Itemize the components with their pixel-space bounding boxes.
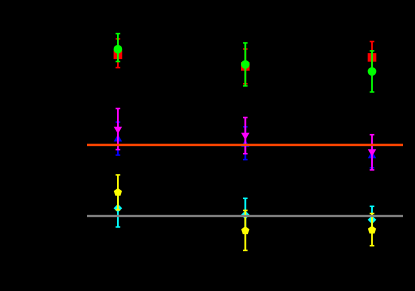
blue triangle-up errorbar col3: bottom cap: [370, 167, 375, 169]
blue triangle-up marker col1: [114, 134, 122, 141]
red squares errorbar col1: top cap: [116, 38, 121, 40]
yellow pentagons errorbar col1: top cap: [116, 174, 121, 176]
cyan diamonds errorbar col1: bottom cap: [116, 226, 121, 228]
yellow pentagons errorbar col3: bottom cap: [370, 245, 375, 247]
magenta triangle-down errorbar col1: bottom cap: [116, 149, 121, 151]
blue triangle-up marker col2: [241, 140, 249, 147]
blue triangle-up errorbar series: [114, 122, 377, 168]
cyan diamonds marker col1: [114, 204, 123, 213]
red squares errorbar col1: vertical bar: [117, 39, 119, 68]
magenta triangle-down errorbar col2: top cap: [243, 117, 248, 119]
green circles errorbar series: [114, 34, 377, 92]
cyan diamonds errorbar col2: vertical bar: [244, 198, 246, 231]
yellow pentagons errorbar col3: vertical bar: [371, 214, 373, 246]
blue triangle-up errorbar col1: vertical bar: [117, 122, 119, 155]
magenta triangle-down errorbar col3: top cap: [370, 134, 375, 136]
yellow pentagons errorbar series: [114, 175, 376, 251]
cyan diamonds errorbar col2: bottom cap: [243, 231, 248, 233]
blue triangle-up errorbar col1: bottom cap: [116, 154, 121, 156]
blue triangle-up errorbar col3: vertical bar: [371, 145, 373, 168]
magenta triangle-down errorbar col1: vertical bar: [117, 109, 119, 150]
green circles errorbar col1: vertical bar: [117, 34, 119, 62]
green circles marker col2: [241, 60, 250, 69]
cyan diamonds errorbar col3: bottom cap: [370, 232, 375, 234]
green circles errorbar col2: bottom cap: [243, 85, 248, 87]
red squares errorbar col3: top cap: [370, 41, 375, 43]
yellow pentagons errorbar col1: vertical bar: [117, 175, 119, 210]
orangered horizontal reference line: [87, 144, 403, 146]
magenta triangle-down errorbar col2: bottom cap: [243, 153, 248, 155]
magenta triangle-down marker col1: [114, 127, 122, 134]
red squares errorbar col2: top cap: [243, 48, 248, 50]
magenta triangle-down marker col3: [368, 149, 376, 156]
red squares errorbar series: [114, 39, 377, 84]
magenta triangle-down errorbar col1: top cap: [116, 108, 121, 110]
yellow pentagons marker col2: [241, 226, 249, 234]
green circles marker col1: [114, 45, 123, 54]
cyan diamonds errorbar col1: vertical bar: [117, 191, 119, 227]
magenta triangle-down errorbar series: [114, 109, 377, 170]
yellow pentagons marker col1: [114, 188, 122, 196]
yellow pentagons errorbar col2: vertical bar: [244, 210, 246, 250]
red squares errorbar col1: bottom cap: [116, 67, 121, 69]
magenta triangle-down errorbar col2: vertical bar: [244, 118, 246, 154]
green circles errorbar col1: bottom cap: [116, 61, 121, 63]
cyan diamonds errorbar series: [114, 191, 377, 233]
red squares marker col1: [114, 51, 123, 60]
cyan diamonds marker col3: [368, 216, 377, 225]
green circles errorbar col1: top cap: [116, 33, 121, 35]
blue triangle-up errorbar col2: top cap: [243, 126, 248, 128]
yellow pentagons errorbar col2: top cap: [243, 209, 248, 211]
red squares errorbar col3: bottom cap: [370, 72, 375, 74]
red squares errorbar col2: vertical bar: [244, 49, 246, 84]
green circles errorbar col2: top cap: [243, 42, 248, 44]
gray horizontal reference line: [87, 215, 403, 217]
green circles errorbar col3: vertical bar: [371, 51, 373, 92]
blue triangle-up errorbar col1: top cap: [116, 121, 121, 123]
blue triangle-up errorbar col2: vertical bar: [244, 127, 246, 160]
cyan diamonds errorbar col2: top cap: [243, 197, 248, 199]
red squares marker col3: [368, 53, 377, 62]
red squares errorbar col2: bottom cap: [243, 83, 248, 85]
red squares marker col2: [241, 62, 250, 71]
yellow pentagons marker col3: [368, 226, 376, 234]
cyan diamonds errorbar col3: vertical bar: [371, 206, 373, 233]
magenta triangle-down marker col2: [241, 133, 249, 140]
magenta triangle-down errorbar col3: vertical bar: [371, 135, 373, 170]
cyan diamonds marker col2: [241, 211, 250, 220]
green circles marker col3: [368, 67, 377, 76]
yellow pentagons errorbar col1: bottom cap: [116, 209, 121, 211]
yellow pentagons errorbar col3: top cap: [370, 213, 375, 215]
cyan diamonds errorbar col1: top cap: [116, 190, 121, 192]
red squares errorbar col3: vertical bar: [371, 42, 373, 74]
green circles errorbar col2: vertical bar: [244, 43, 246, 86]
blue triangle-up errorbar col2: bottom cap: [243, 159, 248, 161]
blue triangle-up errorbar col3: top cap: [370, 144, 375, 146]
green circles errorbar col3: top cap: [370, 50, 375, 52]
blue triangle-up marker col3: [368, 151, 376, 158]
cyan diamonds errorbar col3: top cap: [370, 205, 375, 207]
green circles errorbar col3: bottom cap: [370, 91, 375, 93]
magenta triangle-down errorbar col3: bottom cap: [370, 169, 375, 171]
yellow pentagons errorbar col2: bottom cap: [243, 249, 248, 251]
